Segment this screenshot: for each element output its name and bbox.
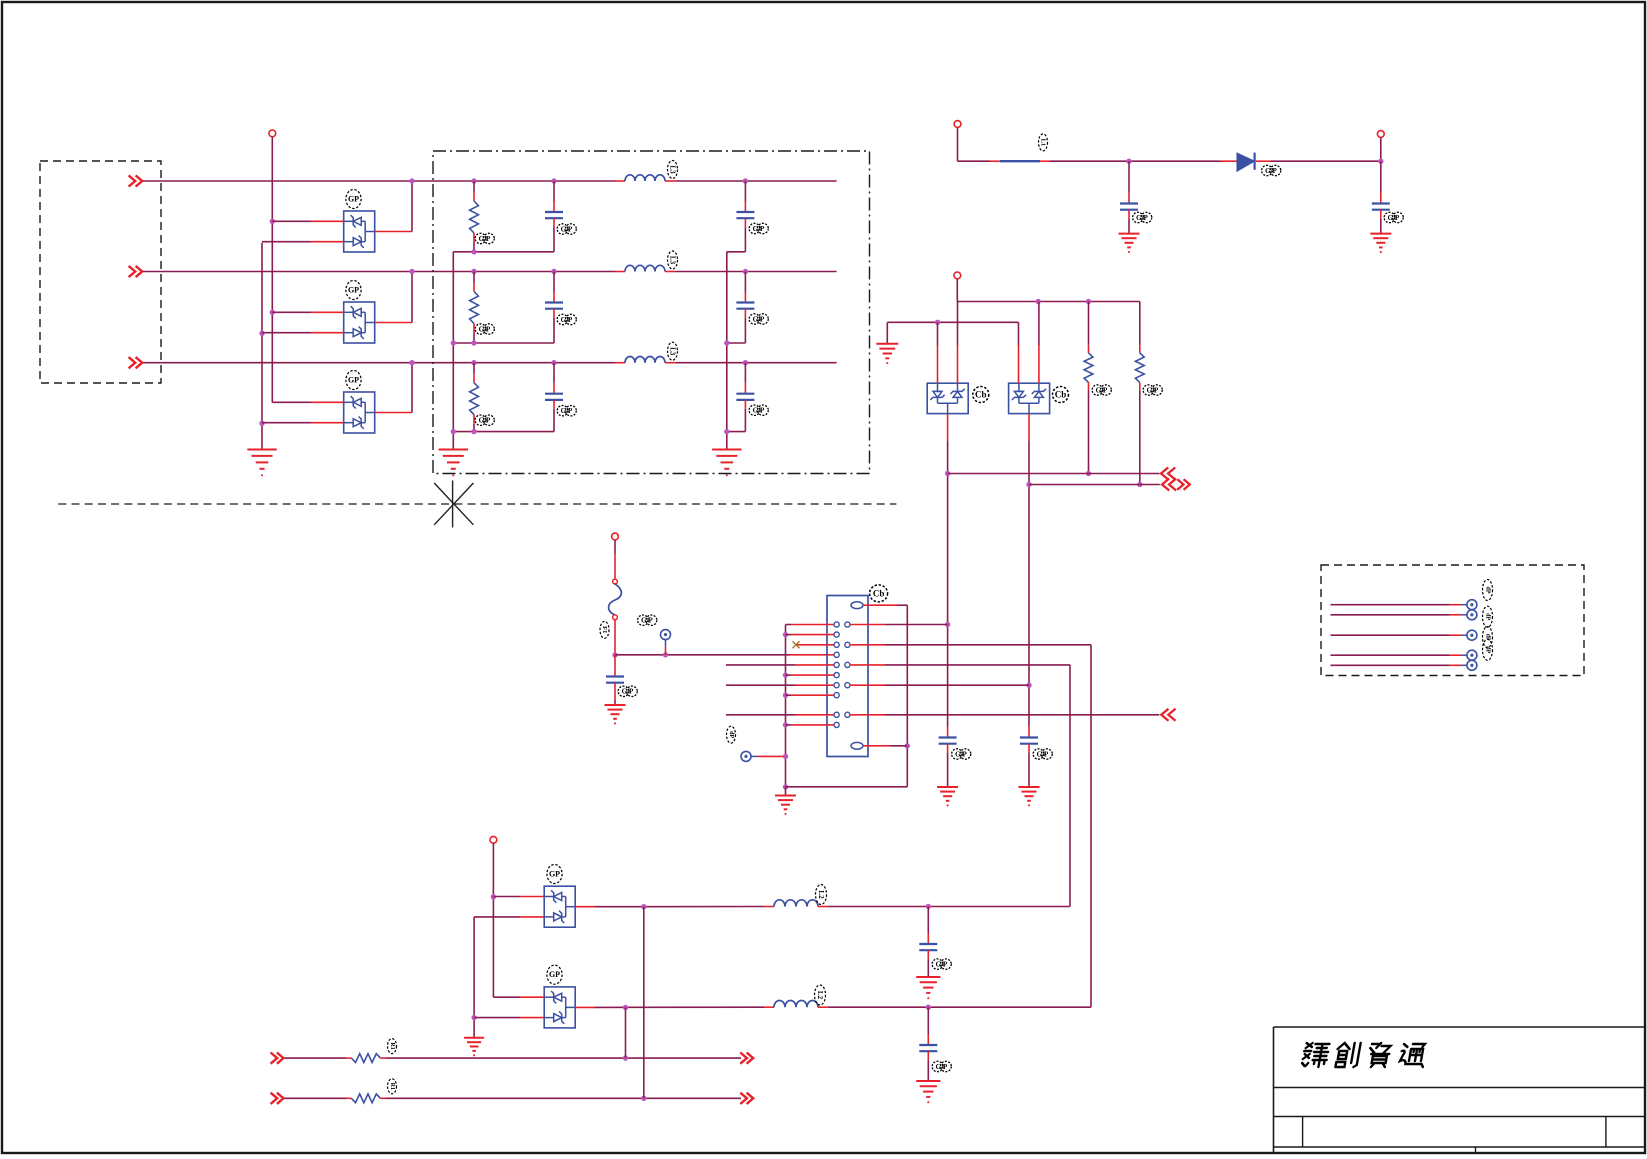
svg-text:G/P: G/P [641, 617, 653, 625]
svg-text:L2: L2 [816, 991, 824, 1000]
svg-text:G/P: G/P [1388, 214, 1400, 222]
svg-text:GP: GP [348, 376, 359, 385]
svg-text:G/P: G/P [622, 688, 634, 696]
svg-text:L1: L1 [1040, 139, 1047, 147]
svg-text:G/P: G/P [479, 417, 491, 425]
svg-text:L3: L3 [669, 165, 677, 174]
svg-text:GP: GP [348, 286, 359, 295]
svg-text:GP: GP [348, 195, 359, 204]
svg-text:GP: GP [549, 870, 560, 879]
svg-text:L3: L3 [669, 347, 677, 356]
svg-text:F1: F1 [601, 626, 608, 633]
svg-text:Cb: Cb [873, 588, 885, 598]
svg-text:G/P: G/P [561, 225, 573, 233]
svg-text:G/P: G/P [1037, 750, 1049, 758]
svg-text:G/P: G/P [1136, 214, 1148, 222]
svg-text:G/P: G/P [753, 407, 765, 415]
svg-text:R1: R1 [389, 1042, 395, 1049]
svg-text:G/P: G/P [753, 225, 765, 233]
svg-text:R1: R1 [389, 1083, 395, 1090]
svg-text:dP: dP [1485, 586, 1491, 593]
svg-text:G/P: G/P [955, 750, 967, 758]
svg-text:G/P: G/P [1096, 386, 1108, 394]
svg-text:G/P: G/P [479, 325, 491, 333]
svg-text:G/P: G/P [753, 315, 765, 323]
svg-text:GP: GP [549, 970, 560, 979]
svg-text:dP: dP [1485, 646, 1491, 653]
svg-text:G/P: G/P [561, 316, 573, 324]
svg-text:G/P: G/P [1265, 167, 1277, 175]
svg-text:Cb: Cb [1055, 390, 1067, 400]
svg-text:dP: dP [1485, 613, 1491, 620]
svg-text:G/P: G/P [561, 407, 573, 415]
svg-text:dP: dP [728, 731, 734, 738]
svg-text:G/P: G/P [936, 960, 948, 968]
svg-text:L3: L3 [669, 256, 677, 265]
svg-text:G/P: G/P [936, 1063, 948, 1071]
svg-text:G/P: G/P [479, 235, 491, 243]
svg-text:L2: L2 [817, 890, 825, 899]
svg-text:G/P: G/P [1147, 386, 1159, 394]
svg-text:Cb: Cb [975, 390, 987, 400]
